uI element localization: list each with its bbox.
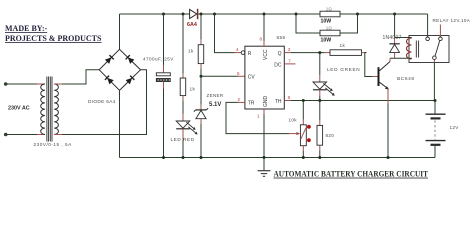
- svg-text:5.1V: 5.1V: [209, 102, 221, 108]
- transformer T1 secondary winding: [54, 84, 58, 134]
- node junction top bus at 10W right: [356, 13, 359, 16]
- wire node down to zener cathode: [200, 76, 202, 105]
- svg-text:4700uF, 25V: 4700uF, 25V: [143, 57, 174, 62]
- svg-text:LED GREEN: LED GREEN: [327, 67, 360, 72]
- svg-text:2: 2: [237, 97, 240, 102]
- wire LED green anode: [319, 53, 321, 75]
- wire bridge plus up to top bus: [119, 14, 121, 49]
- relay contact common: [426, 37, 430, 41]
- wire bus down to relay common contact: [427, 14, 429, 37]
- wire 555 vcc pin8: [263, 14, 265, 41]
- svg-text:TH: TH: [275, 99, 282, 105]
- wire emitter to ground bus: [387, 89, 389, 104]
- resistor R4 1k base: [330, 50, 362, 56]
- node junction ground bus 820: [318, 156, 321, 159]
- node junction top bus at 555 reset feed: [213, 13, 216, 16]
- bridge rectifier diamond: [99, 49, 140, 90]
- transformer T1 core: [47, 77, 52, 142]
- wire battery minus to ground bus: [434, 145, 436, 158]
- svg-text:R: R: [248, 51, 252, 57]
- svg-text:DC: DC: [274, 62, 282, 68]
- wire resistor R1 bottom to node CV: [200, 64, 202, 69]
- relay contact NO stub: [439, 25, 441, 38]
- svg-text:10k: 10k: [289, 118, 298, 123]
- node junction ground bus LED red: [182, 156, 185, 159]
- svg-text:4: 4: [236, 47, 239, 52]
- wire resistor R2 top lead: [182, 14, 184, 73]
- svg-text:1: 1: [257, 114, 260, 119]
- wire LED green cathode to sense rail: [319, 90, 321, 96]
- svg-text:7: 7: [288, 58, 291, 63]
- wire top bus right segment: [198, 13, 427, 15]
- svg-text:1k: 1k: [340, 43, 346, 48]
- wire mains live to transformer primary top: [6, 83, 37, 85]
- node junction sense/battery: [434, 99, 437, 102]
- wire 820 top lead: [319, 101, 321, 121]
- node junction top bus at 10W jog: [295, 13, 298, 16]
- wire coil top feed: [395, 37, 412, 39]
- svg-text:10W: 10W: [321, 38, 332, 44]
- zener diode D7 5.1V: [194, 108, 208, 111]
- svg-text:3: 3: [288, 47, 291, 52]
- svg-text:Q: Q: [278, 51, 282, 57]
- svg-text:555: 555: [277, 35, 286, 41]
- resistor R1 1k (zener feed): [198, 45, 204, 64]
- svg-text:TR: TR: [248, 101, 255, 107]
- wire LED red cathode to ground bus: [182, 129, 184, 141]
- relay armature contact: [433, 56, 437, 60]
- svg-text:1k: 1k: [190, 87, 196, 92]
- relay RL1 box: [409, 36, 449, 63]
- wire 555 discharge pin7 stub: [284, 63, 295, 65]
- wire top bus left segment: [120, 13, 190, 15]
- svg-text:CV: CV: [248, 75, 256, 81]
- svg-text:BC548: BC548: [397, 76, 415, 82]
- op-amp/timer U1 555 body: [245, 46, 284, 109]
- svg-text:MADE BY:-: MADE BY:-: [5, 24, 47, 33]
- wire node to 555 CV pin5: [201, 75, 238, 77]
- wire bridge minus down to ground bus: [119, 90, 121, 157]
- svg-text:6A4: 6A4: [187, 22, 197, 28]
- wire ground bus: [120, 157, 436, 159]
- resistor R5 820: [317, 125, 323, 145]
- svg-text:230V AC: 230V AC: [8, 106, 30, 112]
- node junction ground bus zener: [200, 156, 203, 159]
- node junction ground bus 555 gnd: [263, 156, 266, 159]
- resistor R6 1ohm 10W upper: [320, 11, 340, 17]
- wire coil bottom to collector: [390, 57, 412, 59]
- svg-text:8: 8: [259, 37, 262, 42]
- wire resistor R1 top lead: [200, 14, 202, 40]
- wire flyback diode anode to coil bottom / collector: [394, 52, 396, 58]
- diode D5 6A4 inline: [190, 9, 197, 18]
- svg-text:12V: 12V: [450, 125, 460, 130]
- bridge diode bottom-left: [105, 76, 114, 85]
- node junction sense/led-820: [318, 99, 321, 102]
- svg-text:5: 5: [237, 71, 240, 76]
- svg-text:DIODE 6A4: DIODE 6A4: [88, 99, 116, 104]
- pot unconnected terminal dots: [307, 125, 311, 129]
- potentiometer VR1 10k: [300, 125, 306, 146]
- wire mains neutral to transformer primary bottom: [6, 134, 37, 136]
- battery B1 12V: [434, 101, 436, 115]
- wire secondary top to bridge AC left: [54, 83, 62, 85]
- bridge diode top-left: [105, 55, 114, 64]
- node junction ground bus emitter: [387, 156, 390, 159]
- node junction top bus at flyback diode: [393, 13, 396, 16]
- wire resistor R2 to LED red: [182, 96, 184, 101]
- node junction ground bus capacitor: [162, 156, 165, 159]
- wire pot bottom lead: [302, 146, 304, 151]
- node junction Q / LED green: [318, 51, 321, 54]
- relay core: [415, 41, 417, 58]
- bridge diode bottom-right: [126, 76, 135, 85]
- bridge diode top-right: [126, 55, 135, 64]
- node mains terminal top: [4, 82, 8, 86]
- diode D9 1N4007 flyback: [394, 38, 396, 44]
- wire 555 trigger pin2 to pot wiper: [238, 101, 245, 103]
- svg-text:10W: 10W: [321, 19, 332, 25]
- resistor R2 1k (LED red series): [180, 78, 186, 96]
- svg-text:6: 6: [288, 95, 291, 100]
- wire 555 output pin3: [284, 52, 291, 54]
- node junction ground bus pot: [302, 156, 305, 159]
- node junction top bus at 555 vcc: [263, 13, 266, 16]
- wire 555 reset feed: [215, 14, 235, 53]
- wire pot top lead: [302, 101, 304, 120]
- LED D6 red: [176, 121, 190, 128]
- node junction top bus at LED-red resistor: [182, 13, 185, 16]
- node junction sense/pot: [302, 99, 305, 102]
- wire flyback diode top feed: [394, 14, 396, 38]
- transistor Q1 BC548: [378, 67, 380, 86]
- node junction top bus at 1k regulator resistor: [200, 13, 203, 16]
- wire capacitor top lead: [163, 14, 165, 65]
- LED D8 green: [313, 82, 327, 89]
- pot wiper arrow: [289, 133, 298, 135]
- svg-text:AUTOMATIC BATTERY CHARGER CIRC: AUTOMATIC BATTERY CHARGER CIRCUIT: [274, 170, 429, 179]
- transformer T1 primary winding: [41, 84, 45, 134]
- svg-text:GND: GND: [263, 96, 269, 108]
- svg-text:820: 820: [326, 133, 335, 138]
- wire 820 bottom lead: [319, 145, 321, 150]
- svg-text:1Ω: 1Ω: [326, 7, 333, 12]
- resistor R7 1ohm 10W lower: [320, 30, 340, 36]
- wire capacitor bottom lead: [163, 82, 165, 89]
- wire 555 threshold pin6 sense rail: [284, 100, 291, 102]
- relay coil: [407, 38, 412, 59]
- svg-text:PROJECTS & PRODUCTS: PROJECTS & PRODUCTS: [5, 34, 102, 43]
- ground symbol: [263, 158, 265, 171]
- svg-text:VCC: VCC: [263, 49, 269, 60]
- wire jog to lower 10W resistor: [296, 14, 320, 33]
- wire 555 gnd pin1 to ground bus: [263, 109, 265, 114]
- wire zener anode to ground bus: [200, 119, 202, 124]
- relay switch blade: [435, 41, 440, 56]
- node mains terminal bottom: [4, 133, 8, 137]
- node junction top bus at capacitor: [162, 13, 165, 16]
- svg-text:1Ω: 1Ω: [326, 26, 333, 31]
- svg-text:1k: 1k: [188, 49, 194, 54]
- wire secondary bottom to bridge AC right: [54, 134, 62, 136]
- node junction zener / CV: [200, 75, 203, 78]
- svg-text:RELAY 12V,10A: RELAY 12V,10A: [433, 18, 471, 23]
- wire lower 10W right to bus: [340, 14, 358, 33]
- wire into base resistor: [325, 52, 330, 54]
- wire relay armature to battery plus: [433, 60, 435, 63]
- svg-text:230V/0-15 , 5A: 230V/0-15 , 5A: [34, 142, 73, 147]
- wire base resistor to transistor base: [362, 52, 367, 54]
- svg-text:ZENER: ZENER: [207, 93, 224, 98]
- capacitor C1 4700uF electrolytic: [156, 73, 170, 76]
